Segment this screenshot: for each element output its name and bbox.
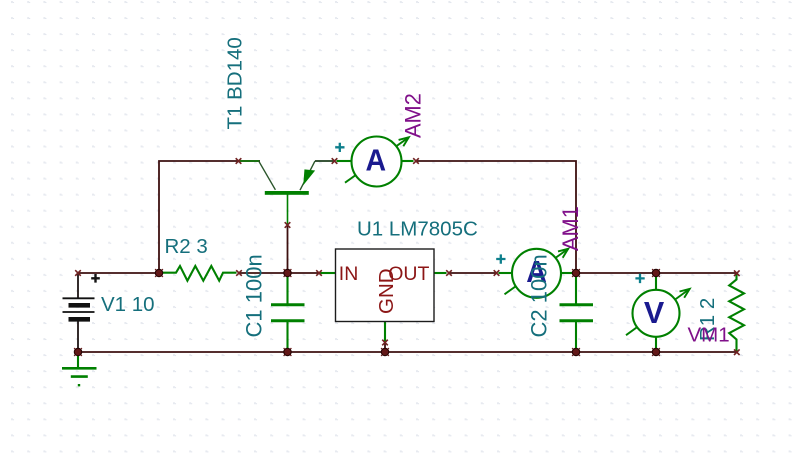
- svg-text:VM1: VM1: [688, 324, 730, 347]
- svg-text:U1 LM7805C: U1 LM7805C: [357, 218, 478, 241]
- svg-text:V: V: [644, 296, 665, 330]
- svg-text:IN: IN: [339, 263, 359, 285]
- svg-text:C1 100n: C1 100n: [242, 254, 267, 337]
- svg-text:A: A: [366, 143, 387, 177]
- svg-text:AM1: AM1: [558, 206, 583, 251]
- svg-text:V1 10: V1 10: [101, 293, 155, 316]
- svg-text:C2 100n: C2 100n: [527, 254, 552, 337]
- svg-text:AM2: AM2: [401, 93, 426, 138]
- svg-text:R2 3: R2 3: [165, 235, 208, 258]
- svg-text:T1 BD140: T1 BD140: [224, 37, 247, 129]
- svg-text:GND: GND: [375, 268, 398, 314]
